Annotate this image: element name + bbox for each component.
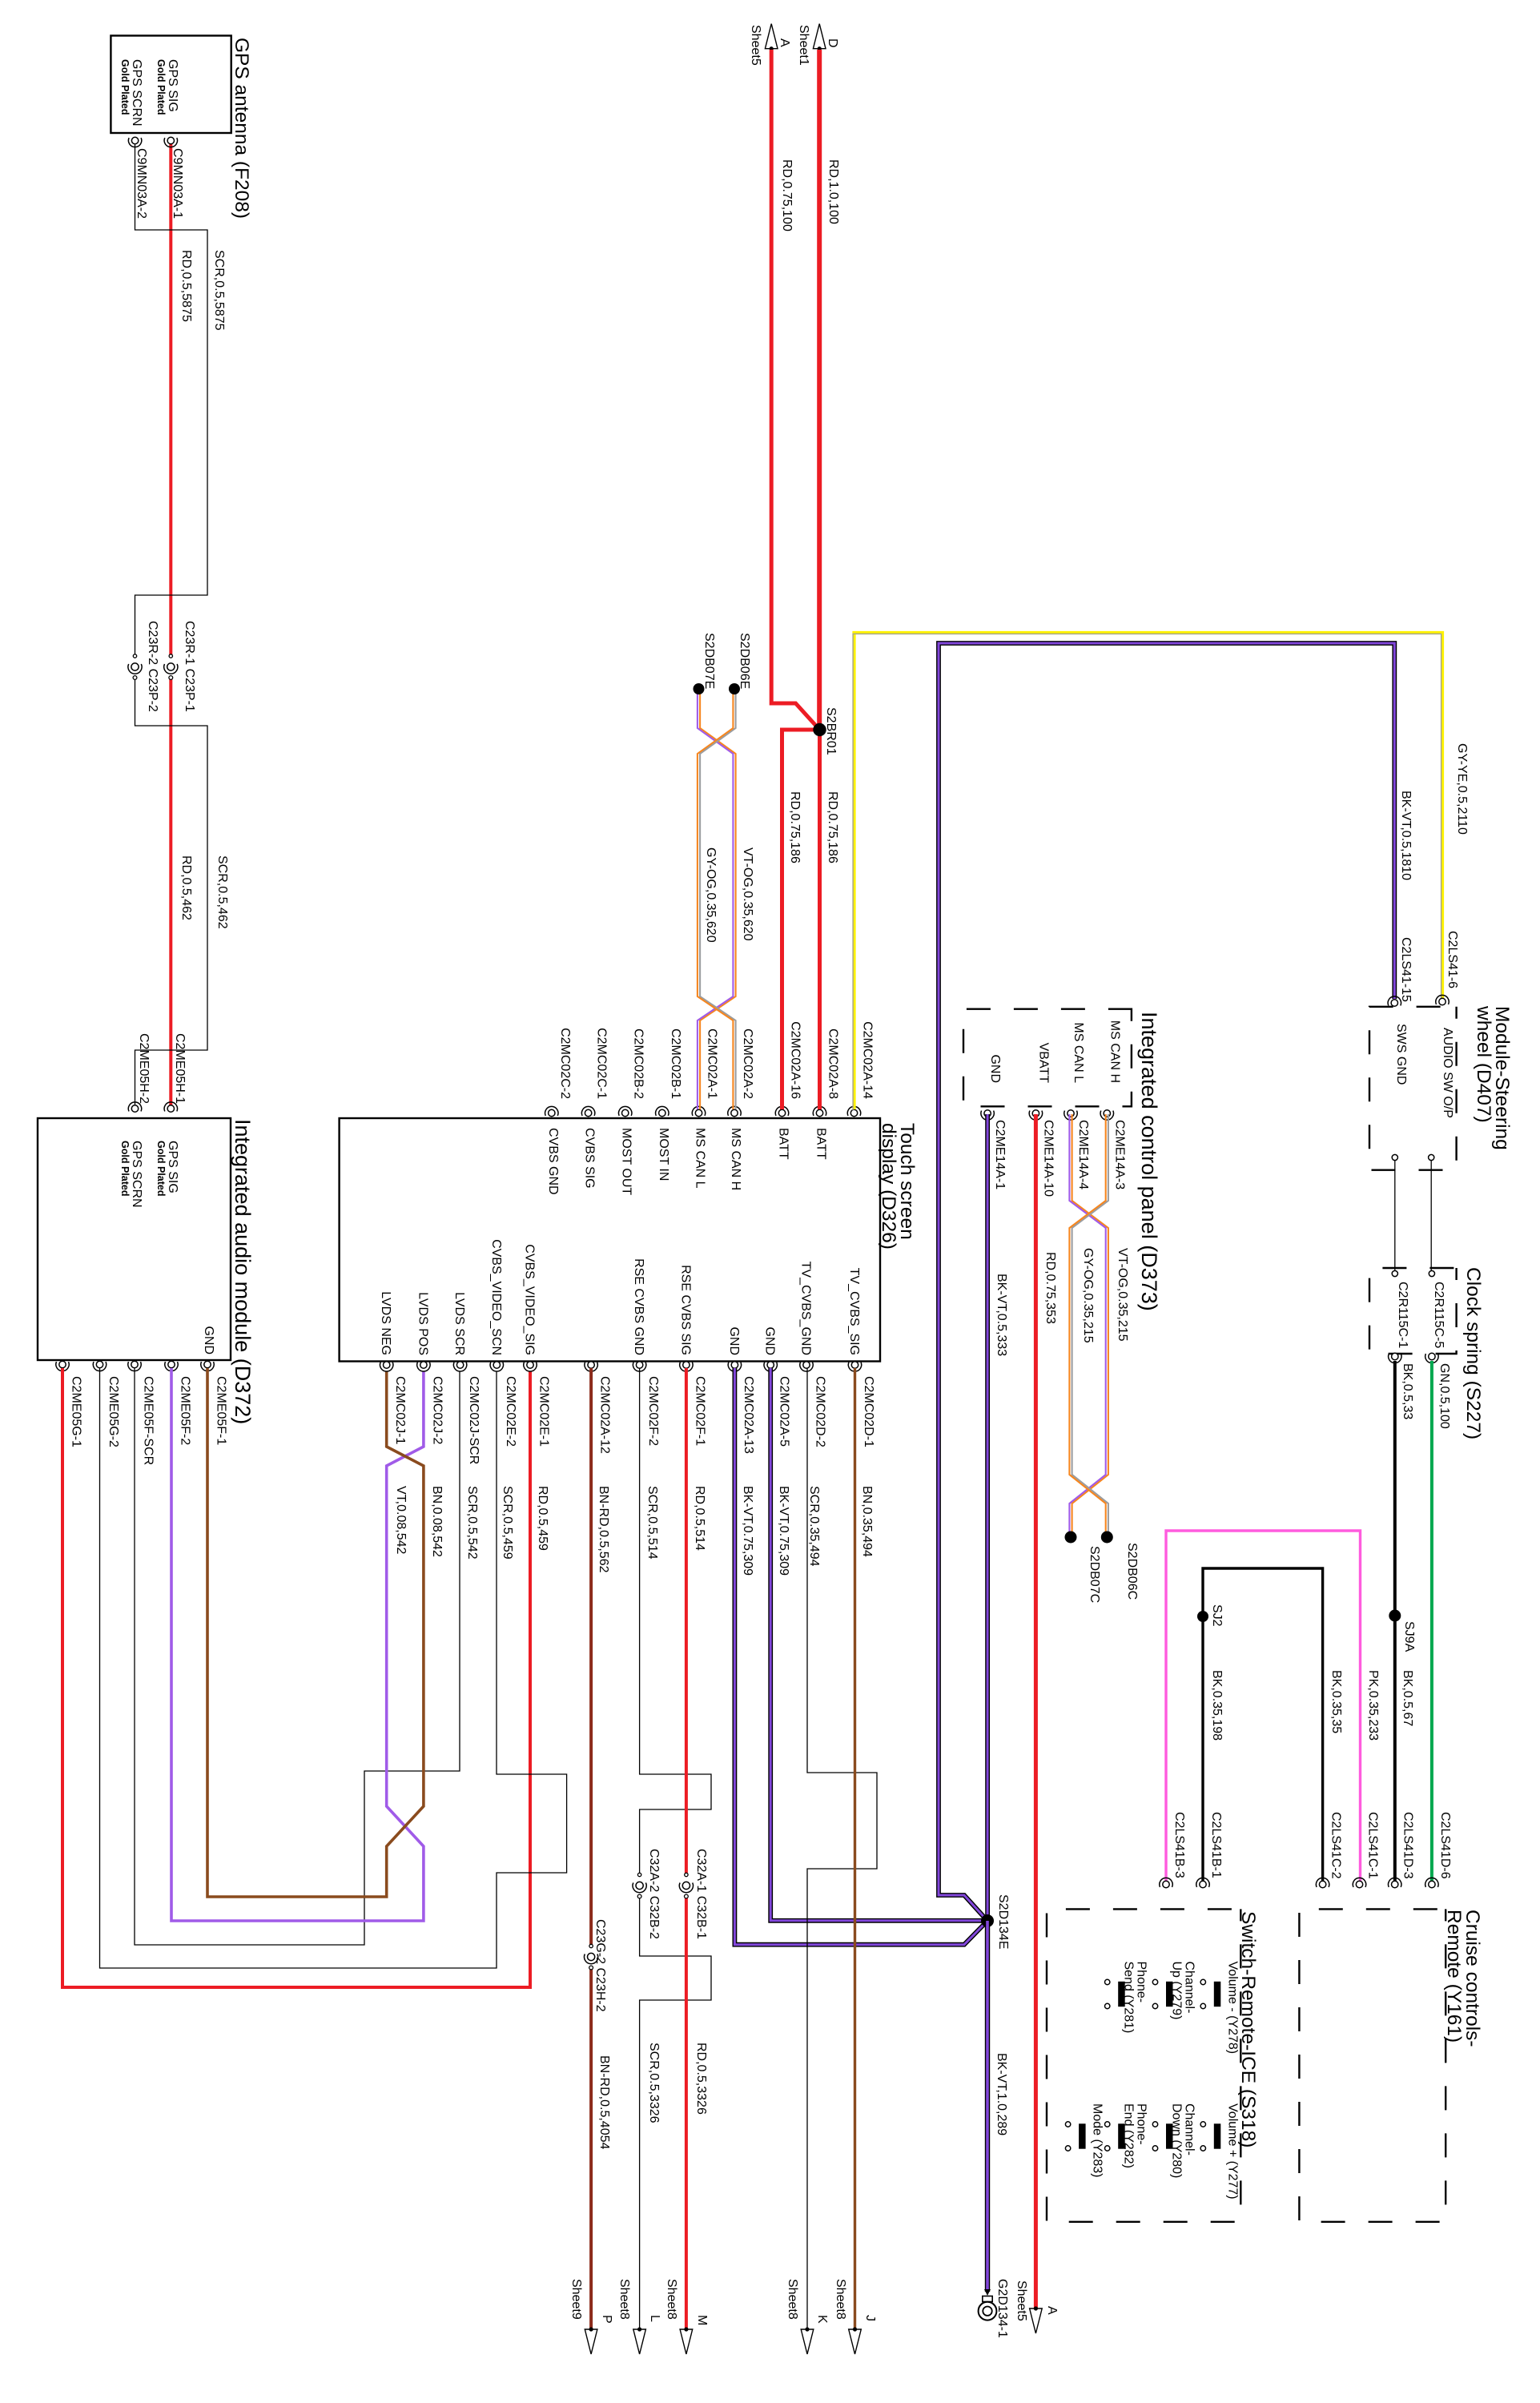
svg-text:BN-RD,0.5,562: BN-RD,0.5,562 xyxy=(597,1486,610,1573)
svg-text:S2D134E: S2D134E xyxy=(996,1894,1010,1950)
svg-text:C2R115C-5: C2R115C-5 xyxy=(1432,1282,1446,1348)
svg-text:C23R-1 C23P-1: C23R-1 C23P-1 xyxy=(183,621,196,712)
svg-text:Touch screen: Touch screen xyxy=(896,1123,918,1240)
pin C2MC02A-14 xyxy=(847,1106,860,1116)
wire BK-VT,0.75,309 A-13 xyxy=(734,1368,987,1945)
svg-text:G2D134-1: G2D134-1 xyxy=(995,2279,1009,2338)
svg-text:S2BR01: S2BR01 xyxy=(824,707,838,755)
svg-text:C2MC02A-2: C2MC02A-2 xyxy=(741,1028,754,1099)
svg-text:BK-VT,0.5,333: BK-VT,0.5,333 xyxy=(995,1274,1008,1356)
wire RD,0.75,186 to C2MC02A-16 xyxy=(782,730,820,1109)
svg-text:C2MC02J-2: C2MC02J-2 xyxy=(430,1376,444,1444)
svg-text:BK-VT,0.75,309: BK-VT,0.75,309 xyxy=(741,1486,754,1576)
wire BK,0.35,198+35 xyxy=(1203,1568,1323,1882)
svg-text:Phone-: Phone- xyxy=(1135,2103,1148,2145)
Touch screen display (D326) box xyxy=(340,1118,880,1362)
pin C2MC02E-2 xyxy=(490,1362,503,1371)
svg-text:C2ME05F-SCR: C2ME05F-SCR xyxy=(142,1376,155,1465)
junction SJ2 xyxy=(1197,1611,1208,1622)
svg-text:MS CAN L: MS CAN L xyxy=(694,1128,707,1189)
svg-text:Gold Plated: Gold Plated xyxy=(119,59,131,115)
svg-text:C2ME05F-1: C2ME05F-1 xyxy=(215,1376,228,1445)
svg-text:Module-Steering: Module-Steering xyxy=(1491,1006,1513,1150)
svg-text:End (Y282): End (Y282) xyxy=(1122,2103,1136,2168)
svg-text:C2MC02A-13: C2MC02A-13 xyxy=(742,1376,755,1454)
sheet arrow Sheet8 M xyxy=(680,2327,693,2354)
svg-text:C2MC02J-SCR: C2MC02J-SCR xyxy=(467,1376,480,1464)
svg-text:GY-YE,0.5,2110: GY-YE,0.5,2110 xyxy=(1455,743,1469,835)
svg-text:TV_CVBS_SIG: TV_CVBS_SIG xyxy=(847,1268,861,1355)
switch Volume + (Y277) xyxy=(1200,2103,1239,2200)
pin C2ME14A-1 xyxy=(981,1110,994,1120)
svg-text:C23R-2 C23P-2: C23R-2 C23P-2 xyxy=(146,621,159,712)
pin C2LS41C-1 xyxy=(1353,1878,1365,1887)
svg-text:C2MC02C-1: C2MC02C-1 xyxy=(595,1028,609,1099)
svg-text:C2MC02A-16: C2MC02A-16 xyxy=(789,1021,802,1099)
svg-text:Sheet8: Sheet8 xyxy=(834,2279,847,2320)
svg-text:C2LS41-15: C2LS41-15 xyxy=(1399,937,1413,1002)
svg-text:Gold Plated: Gold Plated xyxy=(155,59,167,115)
svg-text:RD,0.5,514: RD,0.5,514 xyxy=(693,1486,706,1551)
svg-text:A: A xyxy=(1045,2306,1059,2315)
D407 inner terminal b xyxy=(1429,1154,1434,1160)
svg-text:GND: GND xyxy=(727,1326,741,1355)
svg-text:BN-RD,0.5,4054: BN-RD,0.5,4054 xyxy=(597,2055,611,2149)
svg-text:L: L xyxy=(648,2315,661,2322)
pin C2MC02F-2 xyxy=(633,1362,645,1371)
svg-text:C9MN03A-1: C9MN03A-1 xyxy=(171,148,184,219)
svg-text:C2LS41-6: C2LS41-6 xyxy=(1446,931,1459,988)
svg-text:LVDS NEG: LVDS NEG xyxy=(379,1291,392,1355)
svg-text:Channel-: Channel- xyxy=(1183,1962,1196,2014)
svg-text:VT,0.08,542: VT,0.08,542 xyxy=(394,1486,408,1555)
sheet arrow Sheet1 D xyxy=(813,24,826,51)
svg-text:C2MC02A-8: C2MC02A-8 xyxy=(826,1028,840,1099)
svg-text:C2MC02D-2: C2MC02D-2 xyxy=(814,1376,827,1447)
svg-text:RD,0.5,459: RD,0.5,459 xyxy=(536,1486,549,1551)
svg-text:RD,0.75,186: RD,0.75,186 xyxy=(826,791,839,863)
svg-text:C2ME14A-1: C2ME14A-1 xyxy=(993,1120,1007,1189)
splice S2DB06C xyxy=(1101,1532,1113,1544)
svg-text:MS CAN L: MS CAN L xyxy=(1072,1022,1085,1083)
svg-text:C2LS41D-3: C2LS41D-3 xyxy=(1401,1812,1415,1879)
svg-text:MS CAN H: MS CAN H xyxy=(729,1128,742,1190)
svg-text:TV_CVBS_GND: TV_CVBS_GND xyxy=(799,1262,813,1355)
wire BK-VT,0.5,333 xyxy=(985,1114,990,1921)
svg-text:display (D326): display (D326) xyxy=(878,1123,899,1250)
sheet arrow Sheet8 K xyxy=(801,2327,814,2354)
wire VT,0.08,542 xyxy=(171,1368,424,1921)
svg-text:SCR,0.35,494: SCR,0.35,494 xyxy=(807,1486,821,1567)
pin C2LS41D-6 xyxy=(1425,1878,1438,1887)
svg-text:MOST OUT: MOST OUT xyxy=(620,1128,633,1195)
svg-text:GPS SIG: GPS SIG xyxy=(166,1141,179,1193)
wire RD,0.75,100 xyxy=(771,50,819,730)
svg-text:C23G-2 C23H-2: C23G-2 C23H-2 xyxy=(593,1919,607,2012)
svg-text:VBATT: VBATT xyxy=(1036,1043,1050,1084)
svg-text:RD,0.75,353: RD,0.75,353 xyxy=(1043,1252,1057,1324)
svg-text:Down (Y280): Down (Y280) xyxy=(1170,2103,1184,2178)
svg-text:Up (Y279): Up (Y279) xyxy=(1170,1962,1184,2020)
svg-text:GND: GND xyxy=(202,1326,215,1354)
pin C2LS41-15 xyxy=(1388,996,1401,1006)
svg-text:LVDS SCR: LVDS SCR xyxy=(452,1292,466,1355)
pin C2ME05F-SCR xyxy=(128,1361,141,1371)
pin C2MC02J-1 xyxy=(380,1362,392,1371)
svg-text:C2MC02B-2: C2MC02B-2 xyxy=(632,1028,645,1099)
svg-text:C2MC02A-14: C2MC02A-14 xyxy=(861,1021,875,1099)
wire GY-OG,0.35,620 xyxy=(698,689,736,1109)
Integrated control panel (D373) box xyxy=(963,1009,1132,1107)
svg-text:MOST IN: MOST IN xyxy=(657,1128,670,1181)
svg-text:SCR,0.5,459: SCR,0.5,459 xyxy=(501,1486,514,1560)
svg-text:RD,0.5,3326: RD,0.5,3326 xyxy=(694,2043,708,2115)
svg-text:C2ME14A-4: C2ME14A-4 xyxy=(1076,1120,1090,1189)
svg-text:C2MC02C-2: C2MC02C-2 xyxy=(558,1028,572,1099)
svg-text:K: K xyxy=(815,2315,829,2324)
wire BK-VT,0.75,309 A-5 xyxy=(770,1368,987,1921)
svg-text:Send (Y281): Send (Y281) xyxy=(1122,1962,1136,2034)
svg-text:GY-OG,0.35,620: GY-OG,0.35,620 xyxy=(704,847,718,943)
svg-text:RD,0.75,100: RD,0.75,100 xyxy=(780,159,794,231)
svg-text:C2R115C-1: C2R115C-1 xyxy=(1396,1282,1409,1348)
svg-text:wheel (D407): wheel (D407) xyxy=(1473,1005,1494,1123)
svg-text:BN,0.35,494: BN,0.35,494 xyxy=(860,1486,874,1557)
pin C9MN03A-2 xyxy=(128,137,141,147)
splice S2D134E xyxy=(981,1914,994,1927)
pin C2LS41-6 xyxy=(1436,995,1449,1004)
pin C2ME05G-2 xyxy=(93,1361,106,1371)
connector C32A-2/C32B-2 xyxy=(633,1873,646,1898)
pin C2LS41B-3 xyxy=(1160,1878,1172,1887)
svg-text:C2ME05H-1: C2ME05H-1 xyxy=(173,1033,187,1104)
svg-text:SCR,0.5,3326: SCR,0.5,3326 xyxy=(647,2043,661,2123)
svg-text:C2MC02A-1: C2MC02A-1 xyxy=(706,1028,719,1099)
svg-text:C2MC02A-12: C2MC02A-12 xyxy=(598,1376,612,1454)
pin C2LS41C-2 xyxy=(1316,1878,1329,1887)
pin C2MC02J-2 xyxy=(417,1362,430,1371)
svg-text:C2MC02F-1: C2MC02F-1 xyxy=(693,1376,706,1446)
svg-text:BK,0.35,198: BK,0.35,198 xyxy=(1210,1670,1224,1741)
S227 top terminal a xyxy=(1392,1270,1397,1276)
wire PK,0.35,233 xyxy=(1166,1531,1361,1882)
svg-text:Phone-: Phone- xyxy=(1135,1962,1148,2003)
wire SCR,0.5,459 shield loop xyxy=(100,1368,567,1968)
svg-text:C2ME05F-2: C2ME05F-2 xyxy=(179,1376,192,1445)
svg-text:Gold Plated: Gold Plated xyxy=(119,1141,131,1196)
svg-text:MS CAN H: MS CAN H xyxy=(1108,1020,1121,1083)
wire BK,0.5,33+67 xyxy=(1393,1361,1397,1882)
svg-text:CVBS_VIDEO_SIG: CVBS_VIDEO_SIG xyxy=(523,1244,537,1355)
svg-text:SCR,0.5,514: SCR,0.5,514 xyxy=(645,1486,659,1560)
connector C32A-1/C32B-1 xyxy=(679,1873,693,1898)
svg-text:RD,0.5,5875: RD,0.5,5875 xyxy=(179,250,193,322)
ground G2D134-1 xyxy=(979,2289,997,2320)
svg-text:BATT: BATT xyxy=(777,1128,790,1160)
svg-text:BATT: BATT xyxy=(814,1128,828,1160)
pin C2ME14A-10 xyxy=(1029,1110,1042,1120)
svg-text:GPS antenna (F208): GPS antenna (F208) xyxy=(231,38,252,219)
svg-text:CVBS GND: CVBS GND xyxy=(546,1128,560,1195)
svg-text:C2MC02F-2: C2MC02F-2 xyxy=(646,1376,660,1446)
pin C9MN03A-1 xyxy=(164,137,177,147)
connector C23G-2/C23H-2 xyxy=(585,1944,598,1970)
wire SCR,0.5,542 LVDS shield xyxy=(135,1368,460,1945)
svg-text:Sheet5: Sheet5 xyxy=(1015,2280,1028,2321)
svg-text:GND: GND xyxy=(763,1326,777,1355)
svg-text:Sheet1: Sheet1 xyxy=(797,25,810,66)
svg-text:GPS SCRN: GPS SCRN xyxy=(130,1141,143,1208)
wire RD,0.5,459 loop xyxy=(62,1368,530,1987)
wire D407 to S227 a xyxy=(1394,1161,1396,1270)
Integrated audio module (D372) box xyxy=(38,1118,231,1360)
svg-text:C2MC02E-2: C2MC02E-2 xyxy=(504,1376,517,1447)
svg-text:Remote (Y161): Remote (Y161) xyxy=(1443,1910,1465,2043)
sheet arrow Sheet5 A xyxy=(765,24,778,51)
splice S2BR01 xyxy=(813,723,826,736)
svg-text:BK-VT,0.5,1810: BK-VT,0.5,1810 xyxy=(1399,791,1413,880)
svg-text:Switch-Remote-ICE (S318): Switch-Remote-ICE (S318) xyxy=(1237,1911,1259,2147)
wire RD,0.75,186 to C2MC02A-8 xyxy=(818,730,822,1109)
svg-text:C32A-2 C32B-2: C32A-2 C32B-2 xyxy=(647,1849,661,1939)
pin C2ME14A-4 xyxy=(1064,1110,1077,1120)
svg-text:Integrated control panel (D373: Integrated control panel (D373) xyxy=(1137,1012,1161,1311)
svg-text:Sheet8: Sheet8 xyxy=(665,2279,678,2320)
pin C2MC02D-2 xyxy=(800,1362,813,1371)
svg-text:Channel-: Channel- xyxy=(1183,2103,1196,2155)
pin C2ME05F-1 xyxy=(201,1361,214,1371)
svg-text:SCR,0.5,5875: SCR,0.5,5875 xyxy=(212,250,226,331)
svg-text:C2LS41B-3: C2LS41B-3 xyxy=(1172,1812,1186,1878)
wire BN,0.08,542 xyxy=(207,1368,424,1897)
svg-text:C2LS41C-2: C2LS41C-2 xyxy=(1329,1812,1343,1879)
pin C2ME05F-2 xyxy=(165,1361,178,1371)
svg-text:CVBS SIG: CVBS SIG xyxy=(583,1128,597,1189)
svg-text:Cruise controls-: Cruise controls- xyxy=(1462,1910,1483,2047)
wire RD,0.5,514 RSE xyxy=(685,1368,688,2330)
svg-text:C9MN03A-2: C9MN03A-2 xyxy=(135,148,148,219)
D407 inner terminal a xyxy=(1392,1154,1397,1160)
svg-text:BK,0.5,67: BK,0.5,67 xyxy=(1401,1670,1414,1726)
splice S2DB07E xyxy=(694,683,705,694)
sheet arrow Sheet9 P xyxy=(585,2327,597,2354)
pin C2MC02B-1 xyxy=(656,1106,669,1116)
wire GN,0.5,100 xyxy=(1430,1361,1433,1882)
svg-text:Gold Plated: Gold Plated xyxy=(155,1141,167,1196)
pin C2MC02A-2 xyxy=(728,1106,741,1116)
svg-text:P: P xyxy=(600,2315,613,2324)
pin C2MC02A-8 xyxy=(813,1106,826,1116)
wire SCR screen GPS xyxy=(135,144,208,1109)
wire VT-OG,0.35,620 xyxy=(698,689,736,1109)
svg-text:C2MC02E-1: C2MC02E-1 xyxy=(537,1376,551,1447)
svg-text:Volume + (Y277): Volume + (Y277) xyxy=(1225,2103,1239,2200)
svg-text:VT-OG,0.35,620: VT-OG,0.35,620 xyxy=(741,847,754,941)
Switch-Remote-ICE (S318) box xyxy=(1047,1909,1240,2221)
svg-text:S2DB07E: S2DB07E xyxy=(702,633,716,689)
wire RD,0.5 GPS SIG xyxy=(169,144,172,1109)
pin C2LS41D-3 xyxy=(1389,1878,1401,1887)
svg-text:C2LS41B-1: C2LS41B-1 xyxy=(1209,1812,1223,1878)
pin C2MC02F-1 xyxy=(680,1362,693,1371)
wire D407 to S227 b xyxy=(1430,1161,1432,1270)
svg-text:A: A xyxy=(778,38,791,47)
svg-text:S2DB06C: S2DB06C xyxy=(1125,1543,1139,1600)
svg-text:Sheet8: Sheet8 xyxy=(617,2279,631,2320)
pin C2MC02A-13 xyxy=(728,1362,741,1371)
svg-text:SWS GND: SWS GND xyxy=(1394,1024,1408,1085)
sheet arrow Sheet5 A bottom xyxy=(1030,2306,1043,2333)
svg-text:GND: GND xyxy=(988,1054,1002,1083)
wire BN,0.35,494 xyxy=(854,1368,856,2330)
svg-text:S2DB07C: S2DB07C xyxy=(1088,1546,1101,1603)
svg-text:C2ME05H-2: C2ME05H-2 xyxy=(137,1033,151,1104)
switch Channel-Up (Y279) xyxy=(1152,1962,1196,2020)
svg-text:CVBS_VIDEO_SCN: CVBS_VIDEO_SCN xyxy=(489,1239,503,1355)
sheet arrow Sheet8 J xyxy=(849,2327,862,2354)
pin C2R115C-5 xyxy=(1425,1353,1438,1363)
pin C2MC02C-1 xyxy=(581,1106,594,1116)
wire SCR,0.5,514 shield xyxy=(640,1368,711,2330)
pin C2MC02D-1 xyxy=(848,1362,861,1371)
wire VT-OG,0.35,215 xyxy=(1069,1114,1108,1532)
svg-text:BN,0.08,542: BN,0.08,542 xyxy=(430,1486,444,1557)
svg-text:Mode (Y283): Mode (Y283) xyxy=(1091,2103,1104,2178)
svg-text:C2ME05G-1: C2ME05G-1 xyxy=(70,1376,83,1447)
svg-text:RD,0.75,186: RD,0.75,186 xyxy=(788,791,802,863)
pin C2MC02C-2 xyxy=(545,1106,558,1116)
pin C2MC02A-12 xyxy=(585,1362,597,1371)
pin C2ME05H-2 xyxy=(128,1102,141,1112)
wire GY-OG,0.35,215 xyxy=(1069,1114,1108,1532)
Cruise controls-Remote (Y161) box xyxy=(1299,1909,1446,2221)
pin C2R115C-1 xyxy=(1389,1353,1401,1363)
svg-text:PK,0.35,233: PK,0.35,233 xyxy=(1366,1670,1380,1741)
svg-text:Clock spring (S227): Clock spring (S227) xyxy=(1462,1267,1484,1439)
svg-text:S2DB06E: S2DB06E xyxy=(738,633,751,689)
switch Channel-Down (Y280) xyxy=(1152,2103,1196,2178)
svg-text:BK-VT,0.75,309: BK-VT,0.75,309 xyxy=(777,1486,790,1576)
svg-text:C2LS41D-6: C2LS41D-6 xyxy=(1438,1812,1452,1879)
svg-text:SJ9A: SJ9A xyxy=(1402,1621,1416,1652)
svg-text:Sheet5: Sheet5 xyxy=(749,25,762,66)
svg-text:GN,0.5,100: GN,0.5,100 xyxy=(1437,1363,1451,1429)
svg-text:VT-OG,0.35,215: VT-OG,0.35,215 xyxy=(1116,1248,1129,1342)
svg-text:Integrated audio module (D372): Integrated audio module (D372) xyxy=(231,1119,255,1424)
svg-text:C2ME14A-3: C2ME14A-3 xyxy=(1112,1120,1126,1189)
pin C2ME05G-1 xyxy=(56,1361,69,1371)
connector C23R-2/C23P-2 xyxy=(128,654,142,680)
svg-text:AUDIO SW O/P: AUDIO SW O/P xyxy=(1441,1028,1454,1118)
svg-text:BK-VT,1.0,289: BK-VT,1.0,289 xyxy=(995,2053,1008,2135)
svg-text:SCR,0.5,542: SCR,0.5,542 xyxy=(465,1486,479,1560)
svg-text:LVDS POS: LVDS POS xyxy=(416,1292,429,1355)
svg-text:RD,0.5,462: RD,0.5,462 xyxy=(179,855,193,920)
svg-text:RSE CVBS SIG: RSE CVBS SIG xyxy=(678,1265,692,1355)
pin C2ME14A-3 xyxy=(1100,1110,1113,1120)
splice S2DB07C xyxy=(1065,1532,1077,1544)
svg-text:Sheet8: Sheet8 xyxy=(786,2279,799,2320)
svg-text:D: D xyxy=(826,38,839,48)
svg-text:C2LS41C-1: C2LS41C-1 xyxy=(1366,1812,1380,1879)
switch Volume - (Y278) xyxy=(1200,1962,1239,2055)
svg-text:GY-OG,0.35,215: GY-OG,0.35,215 xyxy=(1081,1248,1095,1343)
svg-text:SCR,0.5,462: SCR,0.5,462 xyxy=(215,855,229,929)
svg-text:C2MC02D-1: C2MC02D-1 xyxy=(862,1376,875,1447)
svg-text:J: J xyxy=(863,2315,877,2321)
pin C2MC02A-1 xyxy=(692,1106,705,1116)
svg-text:C2ME05G-2: C2ME05G-2 xyxy=(107,1376,120,1447)
wire RD,1.0,100 xyxy=(817,50,822,730)
svg-text:RD,1.0,100: RD,1.0,100 xyxy=(826,159,840,224)
wire GY-YE,0.5,2110 xyxy=(853,633,1442,1110)
svg-text:M: M xyxy=(695,2315,709,2325)
pin C2MC02A-16 xyxy=(775,1106,788,1116)
svg-text:GPS SCRN: GPS SCRN xyxy=(130,59,143,127)
pin C2ME05H-1 xyxy=(164,1102,177,1112)
wire BK-VT,1.0,289 xyxy=(985,1921,990,2292)
pin C2LS41B-1 xyxy=(1196,1878,1209,1887)
svg-text:C2MC02J-1: C2MC02J-1 xyxy=(393,1376,407,1444)
svg-text:C2MC02A-5: C2MC02A-5 xyxy=(778,1376,791,1447)
switch Phone-End (Y282) xyxy=(1105,2103,1148,2168)
connector C23R-1/C23P-1 xyxy=(164,654,178,680)
Clock spring (S227) box xyxy=(1369,1268,1457,1354)
svg-text:BK,0.5,33: BK,0.5,33 xyxy=(1401,1363,1414,1419)
svg-text:RSE CVBS GND: RSE CVBS GND xyxy=(632,1258,645,1355)
pin C2MC02B-2 xyxy=(619,1106,632,1116)
svg-text:C32A-1 C32B-1: C32A-1 C32B-1 xyxy=(694,1849,708,1939)
svg-text:Sheet9: Sheet9 xyxy=(569,2279,583,2320)
svg-text:C2ME14A-10: C2ME14A-10 xyxy=(1041,1120,1055,1197)
svg-text:SJ2: SJ2 xyxy=(1210,1604,1224,1627)
svg-text:Volume - (Y278): Volume - (Y278) xyxy=(1225,1962,1239,2055)
Module-Steering wheel (D407) box xyxy=(1369,1007,1457,1170)
junction SJ9A xyxy=(1389,1610,1401,1622)
GPS antenna (F208) box xyxy=(111,36,231,134)
wire RD,0.75,353 xyxy=(1034,1114,1038,2310)
S227 top terminal b xyxy=(1429,1270,1434,1276)
switch Phone-Send (Y281) xyxy=(1105,1962,1148,2034)
svg-text:GPS SIG: GPS SIG xyxy=(166,59,179,112)
svg-text:BK,0.35,35: BK,0.35,35 xyxy=(1329,1670,1343,1733)
splice S2DB06E xyxy=(729,683,740,694)
pin C2MC02E-1 xyxy=(524,1362,537,1371)
wire BN-RD,0.5 A-12 xyxy=(589,1368,593,2330)
wire BK-VT,0.5,1810 xyxy=(939,643,1394,1921)
switch Mode (Y283) xyxy=(1065,2103,1104,2178)
sheet arrow Sheet8 L xyxy=(633,2327,646,2354)
pin C2MC02A-5 xyxy=(764,1362,777,1371)
pin C2MC02J-SCR xyxy=(453,1362,466,1371)
wire SCR,0.35,494 shield xyxy=(807,1368,877,2330)
svg-text:C2MC02B-1: C2MC02B-1 xyxy=(669,1028,682,1099)
